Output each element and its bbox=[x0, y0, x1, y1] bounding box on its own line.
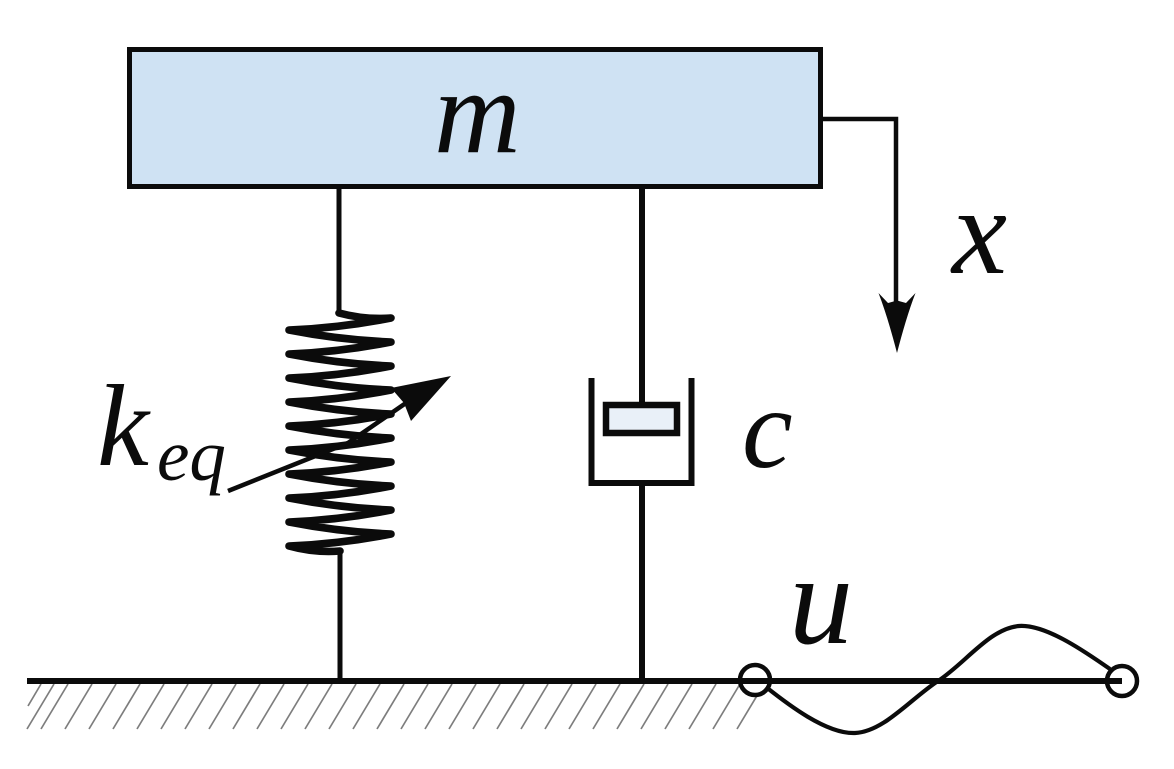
mass block m bbox=[130, 50, 821, 187]
rod from damper cup to ground bbox=[639, 483, 645, 681]
right pivot circle bbox=[1107, 666, 1137, 696]
svg-text:m: m bbox=[434, 45, 521, 178]
damper piston bbox=[606, 405, 677, 433]
spring k_eq coil bbox=[289, 313, 391, 551]
wire from mass right edge to x-arrow bbox=[823, 119, 896, 312]
svg-text:u: u bbox=[789, 529, 853, 671]
ground hatching bbox=[27, 684, 764, 729]
arrowhead of x displacement arrow bbox=[879, 293, 916, 353]
svg-text:k: k bbox=[97, 362, 151, 491]
rod from mass to damper piston bbox=[639, 186, 645, 406]
svg-text:eq: eq bbox=[157, 415, 226, 496]
damper cup bbox=[589, 378, 695, 483]
variable-spring arrowhead bbox=[391, 376, 451, 421]
left pivot circle bbox=[740, 665, 770, 695]
rod from spring to ground bbox=[338, 551, 343, 681]
svg-text:x: x bbox=[950, 163, 1007, 300]
rod from mass to spring bbox=[337, 186, 342, 314]
svg-text:c: c bbox=[742, 365, 793, 492]
ground line bbox=[27, 678, 1122, 684]
base sine wave u bbox=[766, 626, 1110, 733]
variable-spring arrow shaft bbox=[228, 385, 432, 491]
